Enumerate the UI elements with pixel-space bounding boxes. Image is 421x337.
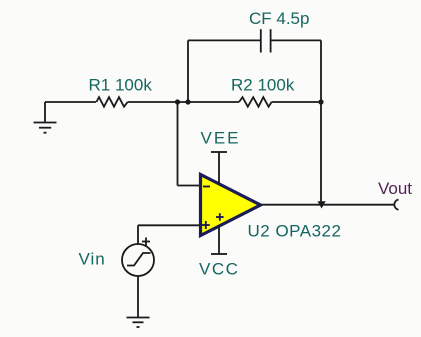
- svg-text:Vout: Vout: [378, 179, 412, 198]
- wire from left ground to R1: [45, 101, 96, 103]
- ground (below Vin): [127, 318, 150, 328]
- wire feedback right vertical down to output: [320, 40, 322, 204]
- waveform symbol inside Vin: [127, 253, 151, 266]
- svg-text:R2 100k: R2 100k: [231, 75, 295, 94]
- node dot (inverting input junction): [175, 99, 180, 104]
- VCC power terminal wire: [218, 226, 220, 254]
- node dot (feedback left junction): [185, 99, 190, 104]
- resistor R1: [96, 97, 127, 107]
- wire feedback top left segment: [188, 39, 260, 41]
- plus marker (positive supply pin): [216, 213, 224, 221]
- resistor R2: [239, 97, 272, 107]
- svg-text:VEE: VEE: [201, 128, 241, 147]
- plus marker (non-inverting input): [202, 221, 210, 229]
- svg-text:Vin: Vin: [79, 249, 106, 268]
- wire op-amp output: [261, 204, 395, 206]
- wire inverting input vertical: [177, 102, 179, 186]
- junction arrow at output node: [318, 201, 326, 208]
- wire non-inverting input horizontal: [138, 224, 200, 226]
- svg-text:CF 4.5p: CF 4.5p: [249, 9, 309, 28]
- node dot (R2 right junction): [318, 99, 323, 104]
- wire R2 to right node: [272, 101, 321, 103]
- VEE T-bar: [211, 151, 227, 153]
- wire non-inverting input vertical to Vin: [137, 225, 139, 244]
- output terminal Vout (open arc): [394, 200, 398, 210]
- wire inverting input horizontal: [178, 185, 201, 187]
- VEE power terminal wire: [218, 152, 220, 185]
- minus marker (inverting input): [203, 186, 210, 188]
- svg-text:VCC: VCC: [199, 259, 239, 278]
- capacitor CF: [261, 29, 271, 52]
- svg-text:U2 OPA322: U2 OPA322: [248, 221, 342, 240]
- VCC T-bar: [211, 253, 227, 255]
- wire feedback top right segment: [271, 39, 321, 41]
- wire feedback left vertical: [187, 40, 189, 102]
- ground (left, at R1 input): [34, 102, 57, 133]
- voltage source Vin circle: [122, 244, 154, 276]
- wire Vin to ground: [137, 276, 139, 317]
- svg-text:R1 100k: R1 100k: [89, 75, 153, 94]
- wire R1 to inverting node: [128, 101, 239, 103]
- plus marker (Vin source polarity): [142, 238, 150, 246]
- op-amp U2 triangle: [201, 175, 261, 236]
